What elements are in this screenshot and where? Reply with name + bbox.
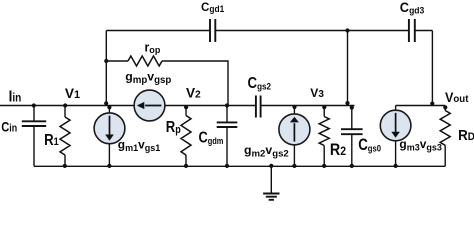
svg-text:Iin: Iin (9, 89, 22, 106)
svg-text:Cin: Cin (1, 119, 17, 134)
svg-text:V1: V1 (65, 86, 80, 101)
